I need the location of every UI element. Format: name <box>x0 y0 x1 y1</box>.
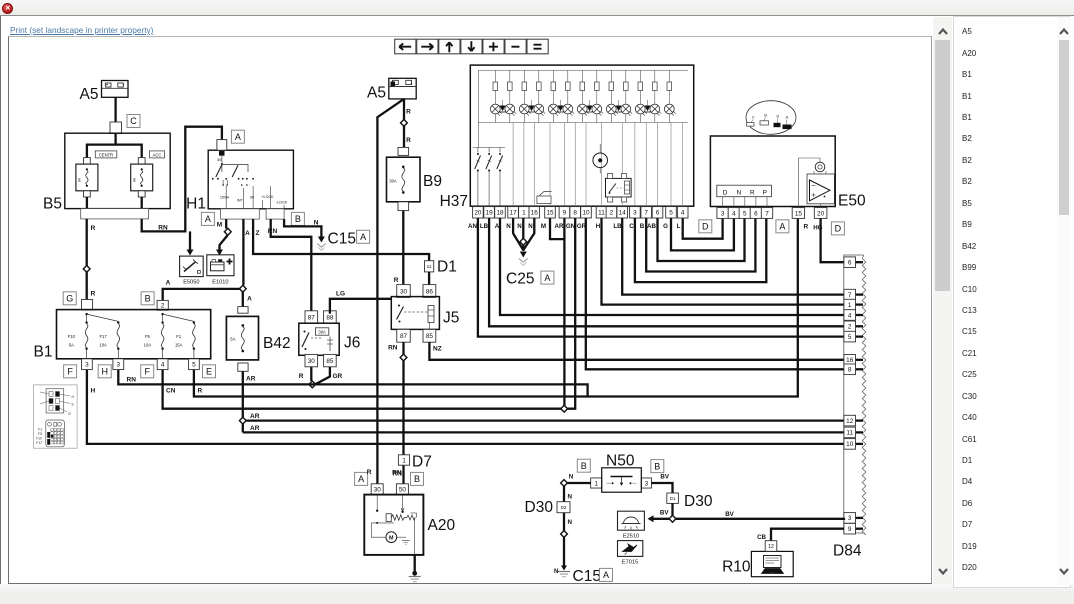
svg-text:15: 15 <box>546 210 554 217</box>
wire GR J6 to junction <box>316 367 343 384</box>
svg-text:M: M <box>389 536 394 542</box>
svg-text:H37: H37 <box>440 193 468 210</box>
svg-text:20: 20 <box>474 210 482 217</box>
junction diamond wire M <box>224 228 231 235</box>
svg-text:3: 3 <box>117 362 121 369</box>
svg-text:RN: RN <box>158 225 168 232</box>
wire H to connector D84 pin1 <box>602 218 845 305</box>
junction diamond wire A <box>239 285 246 292</box>
svg-text:F1: F1 <box>176 334 182 339</box>
push button N50 <box>577 453 664 493</box>
svg-text:R: R <box>406 137 411 144</box>
wire R B9 to relay J5 <box>394 211 404 285</box>
svg-text:3: 3 <box>633 210 637 217</box>
svg-text:R: R <box>91 291 96 298</box>
svg-text:C15: C15 <box>573 568 601 585</box>
svg-text:A: A <box>779 222 785 232</box>
svg-text:BV: BV <box>725 511 734 518</box>
relay J6 <box>299 311 361 367</box>
svg-text:H: H <box>101 367 108 377</box>
svg-text:G: G <box>66 294 73 304</box>
wire R B5 to B1 <box>87 219 96 300</box>
svg-text:16: 16 <box>531 210 539 217</box>
svg-text:4: 4 <box>161 362 165 369</box>
svg-text:+LOCK: +LOCK <box>261 195 274 199</box>
junction diamond N (upper) <box>561 480 568 487</box>
svg-text:P: P <box>763 190 767 197</box>
svg-text:H: H <box>72 395 75 399</box>
ground E5050 <box>180 231 204 285</box>
svg-text:3: 3 <box>645 480 649 487</box>
svg-text:1: 1 <box>848 302 852 309</box>
svg-text:10A: 10A <box>144 343 152 348</box>
svg-text:3: 3 <box>85 362 89 369</box>
svg-text:7: 7 <box>848 292 852 299</box>
svg-text:50: 50 <box>399 487 407 494</box>
svg-text:RN: RN <box>268 228 278 235</box>
svg-text:AR: AR <box>555 223 564 230</box>
wire A H1 to junction A <box>243 219 250 285</box>
svg-text:6: 6 <box>656 210 660 217</box>
wire AR B42 to connector D84 <box>243 371 844 432</box>
svg-text:D30: D30 <box>525 499 554 516</box>
svg-text:AR: AR <box>246 376 256 383</box>
connector D30 (D1) <box>667 493 713 510</box>
junction diamond wire AR <box>239 417 246 424</box>
wire R B1 to module E50 <box>194 219 798 397</box>
svg-text:H: H <box>91 388 96 395</box>
wire colour labels H37 <box>468 223 681 230</box>
svg-text:B42: B42 <box>263 335 291 352</box>
wire B H37 to E50 <box>646 218 755 272</box>
wire HG E50 to connector D84 <box>821 219 844 263</box>
svg-text:L: L <box>677 223 681 230</box>
svg-text:7: 7 <box>644 210 648 217</box>
ground C15 (A) <box>558 566 613 586</box>
battery A5 (right) <box>367 78 416 101</box>
svg-text:5A: 5A <box>230 337 235 342</box>
svg-text:11: 11 <box>427 264 432 270</box>
svg-text:86: 86 <box>426 288 434 295</box>
wire N junction to N50 <box>568 474 591 484</box>
wire AN to connector D84 <box>478 218 844 337</box>
svg-text:2: 2 <box>610 210 614 217</box>
wire N to ground C15 <box>554 538 564 576</box>
wire GN H37 to junction <box>564 218 575 409</box>
svg-text:R: R <box>394 277 399 284</box>
svg-text:30A: 30A <box>389 179 397 184</box>
svg-text:J5: J5 <box>443 310 459 327</box>
svg-text:A5: A5 <box>367 85 386 102</box>
wire GR H37 to connector D84 <box>586 218 844 369</box>
wire BV N50 to connector D30 <box>651 474 672 494</box>
svg-text:10: 10 <box>846 441 854 448</box>
svg-text:D84: D84 <box>833 543 862 560</box>
svg-text:18: 18 <box>496 210 504 217</box>
wire L H37 to E50 <box>683 218 723 239</box>
svg-text:D7: D7 <box>412 454 432 471</box>
junction diamond C25 <box>520 238 527 245</box>
svg-text:C: C <box>130 116 137 126</box>
battery A5 (left) <box>80 81 128 104</box>
svg-text:M: M <box>541 223 546 230</box>
fuse box B5 <box>43 133 170 219</box>
relay J5 <box>391 285 459 343</box>
wire D1 to J5 pin 86 <box>428 272 430 285</box>
svg-text:J6: J6 <box>344 335 360 352</box>
svg-text:A: A <box>245 230 250 237</box>
svg-text:N50: N50 <box>606 453 635 470</box>
svg-text:F5: F5 <box>38 432 42 436</box>
battery ground E1010 <box>207 248 234 286</box>
wire C to B5 fuses <box>87 134 142 158</box>
svg-text:15/54: 15/54 <box>220 195 229 199</box>
svg-text:8A: 8A <box>133 177 137 182</box>
connector C15 (A) <box>317 230 370 250</box>
svg-text:F10: F10 <box>68 334 76 339</box>
svg-text:F: F <box>144 367 150 377</box>
svg-text:AR: AR <box>250 425 260 432</box>
svg-text:16: 16 <box>846 357 854 364</box>
svg-text:9: 9 <box>848 526 852 533</box>
instrument cluster H37 <box>440 65 694 210</box>
svg-text:F17: F17 <box>36 441 42 445</box>
svg-text:6: 6 <box>754 210 758 217</box>
svg-text:A: A <box>166 280 171 287</box>
svg-text:1: 1 <box>594 480 598 487</box>
svg-text:A: A <box>358 474 364 484</box>
wire R battery to fuse B9 <box>404 99 411 147</box>
svg-text:1: 1 <box>402 457 406 464</box>
svg-text:A: A <box>544 273 550 283</box>
wire BV junction to connector D84 <box>676 511 844 519</box>
wire A to fuse box B1 <box>163 280 240 301</box>
svg-text:F17: F17 <box>99 334 107 339</box>
svg-text:NZ: NZ <box>433 346 442 353</box>
svg-text:N: N <box>517 223 522 230</box>
svg-text:G: G <box>663 223 668 230</box>
svg-text:AR: AR <box>250 413 260 420</box>
wire A to connector D84 <box>500 218 844 315</box>
svg-text:M: M <box>217 222 222 229</box>
fuse B9 <box>387 147 442 210</box>
toolbar buttons <box>395 39 416 54</box>
svg-text:15A: 15A <box>175 343 183 348</box>
svg-text:D: D <box>835 224 842 234</box>
svg-text:30: 30 <box>217 158 221 162</box>
svg-text:BV: BV <box>660 510 669 517</box>
svg-text:11: 11 <box>846 430 853 437</box>
svg-text:RN: RN <box>388 345 398 352</box>
svg-text:LG: LG <box>336 291 345 298</box>
svg-text:85: 85 <box>326 358 334 365</box>
svg-text:N: N <box>568 494 573 501</box>
svg-text:8: 8 <box>573 210 577 217</box>
svg-text:F: F <box>67 367 73 377</box>
svg-text:11: 11 <box>598 210 605 217</box>
horn E7015 <box>618 541 643 566</box>
svg-text:D2: D2 <box>561 505 567 510</box>
svg-text:50: 50 <box>250 195 254 199</box>
wire Z H1 to connector D1 <box>253 219 429 261</box>
svg-text:D1: D1 <box>437 259 457 276</box>
svg-text:87: 87 <box>400 333 408 340</box>
svg-text:LB: LB <box>613 223 622 230</box>
svg-text:LB: LB <box>480 223 489 230</box>
svg-text:+: + <box>122 82 125 87</box>
svg-text:A: A <box>247 296 252 303</box>
svg-text:N: N <box>568 519 573 526</box>
svg-text:10A: 10A <box>99 343 107 348</box>
svg-text:INT: INT <box>237 199 244 203</box>
wire AR H37 to junction <box>563 218 565 409</box>
junction diamond on wire R <box>83 266 90 273</box>
wire AB H37 to E50 <box>658 218 745 261</box>
svg-text:-LOCK: -LOCK <box>276 200 288 204</box>
svg-text:14: 14 <box>619 210 627 217</box>
wire LG J6 to relay J5 <box>330 291 391 314</box>
svg-text:10: 10 <box>582 210 590 217</box>
wire M H37 <box>550 218 564 239</box>
svg-text:B: B <box>581 461 587 471</box>
svg-text:88: 88 <box>326 314 334 321</box>
junction diamond AR/CN/GN <box>561 405 568 412</box>
svg-text:5: 5 <box>848 334 852 341</box>
pin row H37 <box>473 207 688 218</box>
svg-text:B: B <box>640 223 645 230</box>
svg-text:B9: B9 <box>423 173 442 190</box>
svg-text:+: + <box>410 81 413 86</box>
svg-text:CN: CN <box>166 388 176 395</box>
svg-text:6: 6 <box>848 260 852 267</box>
wires N to connector C25 <box>513 218 534 251</box>
diagnostic socket R10 <box>722 551 793 576</box>
svg-text:N: N <box>528 223 533 230</box>
fuse box B1 <box>34 292 216 378</box>
wire CB R10 to connector D84 <box>757 529 844 541</box>
legend fusebox location pictogram <box>34 385 78 448</box>
svg-text:D: D <box>723 190 728 197</box>
wire battery A5 to connector C <box>114 97 116 122</box>
wire RN H1 to relay J6 <box>268 219 311 314</box>
svg-text:RN: RN <box>392 470 402 477</box>
svg-text:N: N <box>506 223 511 230</box>
wire CN B1 to junction <box>163 370 562 409</box>
terminal tags E50 <box>699 220 845 235</box>
svg-text:D1: D1 <box>670 496 676 501</box>
starter motor A20 <box>364 484 455 555</box>
svg-text:30: 30 <box>374 487 382 494</box>
svg-text:R: R <box>299 373 304 380</box>
wire RN B1 <box>118 370 587 397</box>
svg-text:D: D <box>702 222 709 232</box>
svg-text:15: 15 <box>795 210 803 217</box>
svg-text:N: N <box>736 190 741 197</box>
svg-text:E50: E50 <box>838 193 866 210</box>
svg-text:A: A <box>603 570 609 580</box>
svg-text:E7015: E7015 <box>622 559 638 565</box>
wire N D30 to junction <box>564 513 573 531</box>
svg-text:R10: R10 <box>722 559 751 576</box>
junction diamond N (lower) <box>561 531 568 538</box>
connector C <box>110 115 140 134</box>
svg-text:2: 2 <box>161 303 165 310</box>
svg-text:GR: GR <box>333 373 343 380</box>
wire M H1 to E1010 <box>217 219 228 248</box>
svg-text:30: 30 <box>308 358 316 365</box>
svg-text:AB: AB <box>647 223 656 230</box>
connector D7 <box>398 454 431 471</box>
svg-text:D: D <box>777 115 780 119</box>
svg-text:4: 4 <box>848 312 852 319</box>
svg-text:7: 7 <box>765 210 769 217</box>
svg-text:F1: F1 <box>38 428 42 432</box>
svg-text:R: R <box>367 469 372 476</box>
svg-text:R: R <box>750 190 755 197</box>
svg-text:C: C <box>752 116 755 120</box>
fuse B42 <box>226 307 290 372</box>
svg-text:B5: B5 <box>43 196 62 213</box>
svg-text:....: .... <box>771 570 775 574</box>
wire A to fuse B42 <box>243 292 252 307</box>
connector bus D84 <box>833 255 866 560</box>
svg-text:Z: Z <box>256 230 260 237</box>
wire R J6 to junction <box>299 367 312 381</box>
svg-text:3: 3 <box>721 210 725 217</box>
junction diamond under J6 <box>309 381 316 388</box>
wire to lamp E2510 <box>648 515 670 522</box>
svg-text:5: 5 <box>192 362 196 369</box>
wire N H1 to connector C15 <box>284 219 321 236</box>
pin row E50 <box>717 208 827 219</box>
connector D1 pin 11 <box>425 259 457 276</box>
wire NZ J5 to connector D84 <box>429 342 844 360</box>
svg-text:30: 30 <box>400 288 408 295</box>
svg-text:A: A <box>235 132 241 142</box>
svg-text:F10: F10 <box>36 437 42 441</box>
svg-text:F5: F5 <box>145 334 151 339</box>
svg-text:A: A <box>360 232 366 242</box>
svg-text:B1: B1 <box>34 344 53 361</box>
svg-text:E1010: E1010 <box>212 280 228 286</box>
terminal labels A20 <box>355 469 424 485</box>
svg-text:1: 1 <box>522 210 526 217</box>
svg-text:AN: AN <box>468 223 477 230</box>
svg-text:C: C <box>629 223 634 230</box>
wire ground A20 <box>409 555 421 582</box>
ignition switch H1 <box>186 130 304 225</box>
svg-text:12: 12 <box>768 544 774 550</box>
connector D30 (D2) <box>525 499 571 516</box>
wire C H37 to E50 <box>635 218 766 282</box>
svg-text:R: R <box>804 224 809 231</box>
svg-text:R: R <box>91 225 96 232</box>
svg-text:A: A <box>205 214 211 224</box>
svg-text:B: B <box>414 474 420 484</box>
svg-text:N: N <box>569 474 574 481</box>
svg-text:B: B <box>295 214 301 224</box>
svg-text:D30: D30 <box>684 493 713 510</box>
connector C25 (A) <box>506 252 554 288</box>
svg-text:BV: BV <box>660 474 669 481</box>
wire R battery to starter A20 <box>377 99 404 486</box>
svg-text:E: E <box>206 367 212 377</box>
svg-text:3: 3 <box>848 515 852 522</box>
svg-text:G: G <box>68 412 71 416</box>
wire N to connector D30 <box>564 487 573 502</box>
svg-text:2: 2 <box>848 324 852 331</box>
svg-text:R: R <box>406 109 411 116</box>
junction diamond BV <box>669 515 676 522</box>
wire RN J5 to starter A20 <box>388 342 403 486</box>
svg-text:N: N <box>314 220 319 227</box>
svg-text:9: 9 <box>563 210 567 217</box>
svg-text:4: 4 <box>681 210 685 217</box>
control module E50 <box>710 101 866 210</box>
svg-text:A: A <box>786 116 789 120</box>
svg-text:17: 17 <box>510 210 518 217</box>
svg-text:C15: C15 <box>328 231 356 248</box>
svg-text:CENTR: CENTR <box>99 152 113 157</box>
svg-text:RN: RN <box>127 377 137 384</box>
wire RN B5 to H1 <box>142 127 222 232</box>
svg-text:5: 5 <box>669 210 673 217</box>
junction diamond wire RN J5 <box>400 354 407 361</box>
svg-text:B: B <box>654 461 660 471</box>
wire G H37 to E50 <box>671 218 734 250</box>
courtesy lamp E2510 <box>618 511 645 539</box>
svg-text:H: H <box>596 223 601 230</box>
svg-text:8A: 8A <box>78 177 82 182</box>
svg-text:20: 20 <box>817 210 825 217</box>
svg-text:C25: C25 <box>506 271 534 288</box>
svg-text:5: 5 <box>743 210 747 217</box>
svg-text:8: 8 <box>848 367 852 374</box>
wire BV D30 to junction <box>660 503 673 516</box>
svg-text:87: 87 <box>308 314 316 321</box>
svg-text:4: 4 <box>732 210 736 217</box>
svg-text:85: 85 <box>426 333 434 340</box>
svg-text:A5: A5 <box>80 86 99 103</box>
svg-text:CB: CB <box>757 534 766 541</box>
wire H B1 to connector D84 <box>87 370 844 444</box>
junction diamond wire R battery <box>401 120 408 127</box>
svg-text:R: R <box>198 388 203 395</box>
svg-text:B: B <box>145 294 151 304</box>
svg-text:30A: 30A <box>318 329 326 334</box>
wire LB to connector D84 <box>489 218 844 326</box>
svg-text:19: 19 <box>486 210 494 217</box>
svg-text:ACC: ACC <box>153 152 162 157</box>
svg-text:5A: 5A <box>69 343 74 348</box>
svg-text:A20: A20 <box>428 517 456 534</box>
connector R10 pin 12 <box>765 541 777 552</box>
scrollbar arrows <box>939 30 947 35</box>
svg-text:12: 12 <box>846 418 854 425</box>
svg-text:H1: H1 <box>186 196 206 213</box>
wire LB pin14 to connector D84 pin7 <box>622 218 844 295</box>
svg-text:E5050: E5050 <box>183 280 199 286</box>
svg-text:E2510: E2510 <box>623 533 639 539</box>
